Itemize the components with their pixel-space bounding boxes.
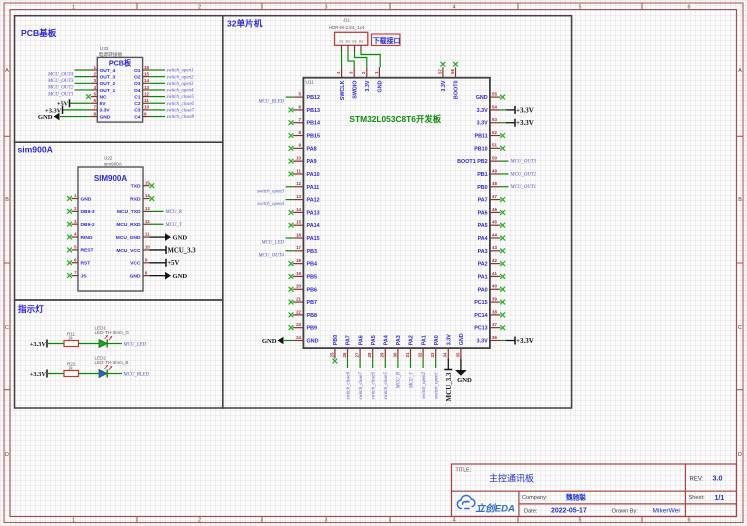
wire J11 P2 to SWDIO: [348, 51, 354, 68]
U22 pin 2 DB9-3 no-connect: [67, 206, 95, 215]
svg-text:13: 13: [144, 85, 150, 90]
U11 pin 46 PA6 no-connect: [478, 207, 505, 217]
svg-text:GND: GND: [262, 338, 277, 345]
svg-text:C: C: [5, 325, 9, 331]
svg-text:PB7: PB7: [307, 300, 318, 306]
svg-text:C3: C3: [134, 108, 141, 114]
svg-text:52: 52: [492, 130, 497, 135]
svg-text:switch_open3: switch_open3: [167, 82, 194, 87]
svg-text:switch_close8: switch_close8: [346, 371, 351, 399]
svg-text:11: 11: [296, 168, 301, 173]
U22 pin 13 MCU_TXD: [117, 206, 182, 215]
U11 pin 12 PA11 net switch_open3: [257, 181, 319, 194]
U11 pin 44 PA4 no-connect: [478, 232, 505, 242]
svg-text:GND: GND: [378, 80, 384, 92]
svg-text:U11: U11: [306, 80, 315, 86]
U11 pin 56 BOOT0 no-connect (top): [450, 62, 460, 99]
svg-text:RXD: RXD: [130, 196, 141, 202]
J11 pin stubs: [342, 45, 362, 50]
svg-text:9: 9: [299, 143, 302, 148]
svg-text:switch_close7: switch_close7: [359, 371, 364, 399]
svg-text:PC13: PC13: [474, 326, 488, 332]
svg-text:10: 10: [145, 245, 150, 250]
svg-text:5V: 5V: [100, 101, 107, 107]
svg-text:+3.3V: +3.3V: [516, 106, 534, 114]
LED LED2 LED-TH-3mm_B: [95, 355, 129, 377]
svg-text:O4: O4: [134, 88, 141, 94]
U11 pin 26 PA7 net switch_close8 (bottom): [342, 335, 352, 399]
U11 pin 8 PB15 no-connect: [289, 130, 320, 140]
section box PCB基板: [15, 16, 223, 143]
svg-text:22: 22: [296, 309, 301, 314]
svg-text:MCU_OUT4: MCU_OUT4: [257, 253, 284, 258]
svg-text:RING: RING: [81, 235, 93, 241]
svg-text:32单片机: 32单片机: [227, 18, 263, 29]
svg-text:3.3V: 3.3V: [477, 121, 488, 127]
svg-text:2: 2: [361, 71, 366, 74]
U11 pin 19 PB5 no-connect: [289, 271, 317, 281]
svg-text:17: 17: [296, 245, 301, 250]
svg-text:40: 40: [492, 284, 497, 289]
U11 pin 43 PA3 no-connect: [478, 245, 505, 255]
svg-text:15: 15: [144, 71, 150, 76]
svg-text:GND: GND: [81, 196, 92, 202]
svg-text:4: 4: [453, 5, 456, 11]
svg-text:45: 45: [492, 220, 497, 225]
frame row letters: [5, 68, 742, 458]
svg-text:PB1: PB1: [477, 172, 488, 178]
svg-text:13: 13: [296, 194, 301, 199]
U33 pin 10 C3 net switch_close7: [134, 105, 194, 114]
svg-text:56: 56: [450, 69, 455, 74]
svg-text:+3.3V: +3.3V: [30, 371, 47, 378]
svg-text:3.3V: 3.3V: [100, 108, 111, 114]
svg-text:8: 8: [93, 111, 96, 116]
svg-text:1/1: 1/1: [715, 495, 725, 502]
svg-text:PA5: PA5: [478, 223, 488, 229]
svg-text:O3: O3: [134, 81, 141, 87]
svg-text:PB10: PB10: [474, 146, 488, 152]
U33 pin 15 O2 net switch_open2: [134, 71, 194, 80]
svg-text:20: 20: [296, 284, 301, 289]
svg-text:3.3V: 3.3V: [477, 338, 488, 344]
svg-text:sim900A: sim900A: [18, 145, 53, 155]
svg-text:PA13: PA13: [307, 210, 320, 216]
svg-text:MCU_R: MCU_R: [165, 210, 182, 215]
U33 pin 6 5V: [57, 98, 106, 108]
svg-text:PA7: PA7: [478, 198, 488, 204]
svg-text:B: B: [738, 197, 742, 203]
svg-text:MCU_RXD: MCU_RXD: [116, 222, 141, 228]
svg-text:VCC: VCC: [130, 261, 141, 267]
svg-text:26: 26: [342, 352, 347, 357]
svg-text:PA0: PA0: [434, 335, 440, 345]
svg-text:51: 51: [492, 143, 497, 148]
U22 pin 14 RXD: [130, 193, 154, 202]
svg-text:PB8: PB8: [307, 313, 318, 319]
svg-text:D: D: [738, 452, 742, 458]
section box 32单片机: [223, 16, 572, 408]
power flag +3.3V row 2: [30, 370, 64, 378]
svg-text:2: 2: [198, 5, 201, 11]
svg-text:GND: GND: [38, 114, 53, 121]
svg-text:PB14: PB14: [307, 121, 321, 127]
svg-text:MCU_OUT2: MCU_OUT2: [510, 172, 537, 177]
svg-text:LED-TH-3mm_B: LED-TH-3mm_B: [95, 360, 129, 365]
svg-text:39: 39: [492, 296, 497, 301]
svg-text:3: 3: [325, 518, 328, 524]
svg-text:MCU_T: MCU_T: [165, 223, 183, 228]
svg-text:5: 5: [93, 91, 96, 96]
svg-text:PB15: PB15: [307, 134, 321, 140]
svg-text:GND: GND: [130, 273, 141, 279]
svg-text:PA9: PA9: [307, 159, 317, 165]
wire LED to net MCU_LED: [107, 343, 122, 345]
svg-text:立创EDA: 立创EDA: [476, 503, 516, 515]
svg-text:switch_open1: switch_open1: [435, 372, 440, 399]
svg-text:Drawn By:: Drawn By:: [612, 509, 638, 515]
svg-text:29: 29: [380, 352, 385, 357]
svg-text:1: 1: [74, 193, 77, 198]
U22 pin 11 MCU_GND: [116, 232, 188, 242]
U22 pin 9 VCC: [130, 257, 179, 267]
svg-text:35: 35: [455, 352, 460, 357]
svg-text:PA0: PA0: [478, 287, 488, 293]
svg-text:7: 7: [93, 105, 96, 110]
U33 pin 12 C1 net switch_close5: [134, 91, 194, 100]
svg-text:PC15: PC15: [474, 300, 488, 306]
svg-text:PA2: PA2: [478, 262, 488, 268]
svg-text:switch_open4: switch_open4: [257, 202, 284, 207]
svg-text:14: 14: [145, 193, 150, 198]
svg-text:PA5: PA5: [371, 335, 377, 345]
U11 pin 7 PB14 no-connect: [289, 117, 320, 127]
U33 pin 1 OUT_4: [47, 65, 116, 78]
svg-text:9: 9: [145, 257, 148, 262]
svg-text:2: 2: [93, 71, 96, 76]
svg-text:30: 30: [392, 352, 397, 357]
U11 pin 3 SWDIO (top, to J11): [349, 67, 359, 99]
wire LED to net MCU_RLED: [107, 373, 122, 375]
svg-text:PA1: PA1: [421, 335, 427, 345]
svg-text:PA2: PA2: [409, 335, 415, 345]
U33 pin 9 C4 net switch_close8: [134, 111, 194, 120]
U22 pin 3 DB9-2 no-connect: [67, 219, 95, 228]
U11 pin 4 SWCLK (top, to J11): [336, 67, 346, 100]
svg-text:12: 12: [145, 219, 150, 224]
svg-text:PA6: PA6: [358, 335, 364, 345]
U33 pin 3 OUT_2: [47, 78, 116, 91]
svg-text:+3.3V: +3.3V: [516, 119, 534, 127]
U22 pin 10 MCU_VCC: [116, 245, 196, 255]
svg-text:1: 1: [72, 5, 75, 11]
resistor R11 1k: [64, 331, 79, 346]
svg-text:36: 36: [492, 335, 497, 340]
svg-text:38: 38: [492, 309, 497, 314]
U33 pin 13 O4 net switch_open4: [134, 85, 194, 94]
svg-text:OUT_1: OUT_1: [100, 88, 116, 94]
svg-text:33: 33: [430, 352, 435, 357]
U22 pin 8 GND: [130, 270, 188, 280]
svg-text:MCU_R: MCU_R: [397, 372, 402, 389]
svg-text:5: 5: [579, 5, 582, 11]
svg-text:B: B: [5, 197, 9, 203]
svg-text:MCU_OUT1: MCU_OUT1: [47, 92, 74, 97]
svg-text:3.3V: 3.3V: [447, 334, 453, 345]
svg-text:PCB板: PCB板: [109, 59, 132, 68]
svg-text:31: 31: [405, 352, 410, 357]
svg-text:2: 2: [74, 206, 77, 211]
U33 pin 5 NC: [86, 91, 107, 100]
svg-text:PA12: PA12: [307, 198, 320, 204]
svg-text:28: 28: [367, 352, 372, 357]
U11 pin 32 PA1 net switch_open2 (bottom): [418, 335, 428, 399]
svg-text:REV:: REV:: [690, 477, 704, 483]
U11 pin 14 PA13 no-connect: [289, 207, 320, 217]
svg-text:3.3V: 3.3V: [477, 108, 488, 114]
U11 pin 1 GND (top, to J11): [374, 67, 384, 92]
svg-text:12: 12: [144, 91, 150, 96]
svg-text:D: D: [5, 452, 9, 458]
svg-text:TITLE:: TITLE:: [456, 468, 472, 474]
svg-text:6: 6: [299, 104, 302, 109]
svg-text:3.0: 3.0: [713, 474, 723, 483]
svg-text:switch_open2: switch_open2: [422, 371, 427, 398]
svg-text:Date:: Date:: [524, 509, 538, 515]
svg-text:3: 3: [93, 78, 96, 83]
U11 pin 15 PA14 no-connect: [289, 220, 320, 230]
svg-text:PB11: PB11: [475, 134, 488, 140]
U11 pin 28 PA5 net switch_close6 (bottom): [367, 335, 377, 399]
svg-text:16: 16: [296, 232, 301, 237]
svg-text:switch_open4: switch_open4: [167, 89, 194, 94]
svg-text:PB9: PB9: [307, 326, 318, 332]
svg-text:C4: C4: [134, 114, 141, 120]
U11 pin 38 PC14 no-connect: [474, 309, 505, 319]
U11 pin 48 PB0 net MCU_OUT1: [477, 181, 536, 191]
svg-text:24: 24: [296, 335, 301, 340]
U22 pin 7 JS no-connect: [67, 270, 87, 279]
svg-text:switch_open2: switch_open2: [167, 75, 194, 80]
svg-text:P3: P3: [353, 40, 357, 44]
svg-text:+3.3V: +3.3V: [516, 337, 534, 345]
svg-text:12: 12: [296, 181, 301, 186]
svg-text:23: 23: [296, 322, 301, 327]
U22 pin 4 RING no-connect: [67, 232, 93, 241]
U11 pin 36 3.3V power flag +3.3V: [477, 335, 534, 345]
svg-text:GND: GND: [173, 235, 188, 242]
resistor R22 1k: [64, 361, 79, 376]
svg-text:42: 42: [492, 258, 497, 263]
svg-text:1: 1: [374, 71, 379, 74]
svg-text:MCU_VCC: MCU_VCC: [116, 248, 141, 254]
svg-text:SIM900A: SIM900A: [94, 174, 128, 183]
svg-text:OUT_4: OUT_4: [100, 68, 116, 74]
svg-text:MCU_GND: MCU_GND: [116, 235, 141, 241]
svg-text:MCU_OUT1: MCU_OUT1: [510, 185, 537, 190]
svg-text:PA6: PA6: [478, 210, 488, 216]
U22 pin 12 MCU_RXD: [116, 219, 183, 228]
svg-text:PA14: PA14: [307, 223, 320, 229]
svg-text:1k: 1k: [68, 365, 73, 370]
svg-text:REST: REST: [81, 248, 94, 254]
U11 pin 55 GND no-connect: [476, 92, 505, 102]
svg-text:PA7: PA7: [346, 335, 352, 345]
svg-text:BOOT0: BOOT0: [454, 81, 460, 100]
U33 pin 11 C2 net switch_close6: [134, 98, 194, 107]
svg-text:MikerWei: MikerWei: [653, 508, 681, 515]
svg-text:switch_close7: switch_close7: [167, 109, 195, 114]
svg-text:OUT_2: OUT_2: [100, 81, 116, 87]
svg-text:4: 4: [336, 71, 341, 74]
svg-text:PA15: PA15: [307, 236, 320, 242]
svg-text:GND: GND: [100, 114, 111, 120]
svg-text:10: 10: [296, 156, 301, 161]
svg-text:49: 49: [492, 168, 497, 173]
svg-text:2022-05-17: 2022-05-17: [551, 508, 587, 515]
svg-text:1k: 1k: [68, 335, 73, 340]
power flag +3.3V row 1: [30, 340, 64, 348]
svg-text:MCU_RLED: MCU_RLED: [123, 372, 150, 377]
U11 pin 35 GND ground flag (bottom): [455, 333, 472, 384]
U33 pin 16 O1 net switch_open1: [134, 65, 193, 74]
svg-text:主控通讯板: 主控通讯板: [489, 473, 534, 484]
U11 pin 50 BOOT1 PB2 net MCU_OUT3: [457, 156, 536, 166]
U11 pin 30 PA3 net MCU_R (bottom): [392, 335, 402, 389]
U11 pin 45 PA5 no-connect: [478, 220, 505, 230]
svg-text:4: 4: [453, 518, 456, 524]
U11 pin 27 PA6 net switch_close7 (bottom): [355, 335, 365, 399]
svg-text:switch_close6: switch_close6: [167, 102, 195, 107]
svg-text:OUT_3: OUT_3: [100, 74, 116, 80]
svg-text:3.3V: 3.3V: [365, 80, 371, 91]
svg-text:1: 1: [93, 65, 96, 70]
svg-text:44: 44: [492, 232, 497, 237]
section box sim900A: [15, 142, 223, 300]
svg-text:MCU_TXD: MCU_TXD: [117, 209, 141, 215]
svg-text:3.3V: 3.3V: [441, 80, 447, 91]
svg-text:11: 11: [144, 98, 149, 103]
svg-text:MCU_RLED: MCU_RLED: [257, 100, 284, 105]
svg-text:switch_close5: switch_close5: [167, 95, 195, 100]
U11 pin 42 PA2 no-connect: [478, 258, 505, 268]
wire J11 P3 to 3.3V pin 2: [355, 51, 367, 68]
svg-text:MCU_LED: MCU_LED: [123, 342, 147, 347]
svg-text:6: 6: [688, 5, 691, 11]
svg-text:NC: NC: [100, 94, 108, 100]
svg-text:DB9-2: DB9-2: [81, 222, 95, 228]
svg-text:PB4: PB4: [307, 262, 318, 268]
U22 pin 1 GND no-connect: [67, 193, 92, 202]
svg-text:TXD: TXD: [131, 184, 141, 190]
svg-text:PB12: PB12: [307, 95, 321, 101]
U11 pin 33 PA0 net switch_open1 (bottom): [430, 335, 440, 399]
frame column ticks: [137, 3, 642, 523]
svg-text:MCU_OUT2: MCU_OUT2: [47, 86, 74, 91]
svg-text:GND: GND: [457, 377, 472, 384]
svg-text:47: 47: [492, 194, 497, 199]
svg-text:PB0: PB0: [333, 335, 339, 346]
svg-text:32: 32: [418, 352, 423, 357]
U11 pin 18 PB4 no-connect: [289, 258, 317, 268]
svg-text:4: 4: [93, 85, 96, 90]
svg-text:RST: RST: [81, 261, 91, 267]
U11 pin 11 PA10 no-connect: [289, 168, 320, 178]
svg-text:46: 46: [492, 207, 497, 212]
svg-text:U33: U33: [100, 46, 109, 51]
svg-text:P2: P2: [346, 40, 350, 44]
svg-text:sim900A: sim900A: [104, 161, 123, 166]
svg-text:8: 8: [145, 270, 148, 275]
svg-text:50: 50: [492, 156, 497, 161]
svg-text:27: 27: [355, 352, 360, 357]
U11 pin 53 3.3V power flag +3.3V: [477, 117, 534, 127]
svg-text:switch_close8: switch_close8: [167, 115, 195, 120]
svg-text:16: 16: [144, 65, 150, 70]
svg-text:C1: C1: [134, 94, 141, 100]
svg-text:MCU_T: MCU_T: [409, 371, 414, 389]
U11 pin 57 3.3V no-connect (top): [437, 62, 447, 92]
U11 pin 25 PB0 no-connect (bottom): [329, 335, 339, 364]
U11 pin 22 PB8 no-connect: [289, 309, 317, 319]
wire J11 P1 to SWCLK: [341, 51, 343, 68]
svg-text:5: 5: [299, 92, 302, 97]
svg-text:2: 2: [198, 518, 201, 524]
svg-text:PA3: PA3: [396, 335, 402, 345]
svg-text:MCU_LED: MCU_LED: [260, 241, 284, 246]
svg-text:PA8: PA8: [307, 146, 317, 152]
svg-text:4: 4: [74, 232, 77, 237]
svg-text:15: 15: [145, 180, 150, 185]
U33 pin 2 OUT_3: [47, 71, 116, 84]
svg-text:+3.3V: +3.3V: [30, 341, 47, 348]
U33 pin 7 3.3V: [45, 105, 110, 115]
svg-text:PA11: PA11: [307, 185, 320, 191]
U11 pin 10 PA9 no-connect: [289, 156, 317, 166]
svg-text:11: 11: [145, 232, 150, 237]
svg-text:O1: O1: [134, 68, 141, 74]
svg-text:48: 48: [492, 181, 497, 186]
logo 立创EDA: [457, 496, 515, 515]
U11 pin 13 PA12 net switch_open4: [257, 194, 320, 207]
svg-text:SWDIO: SWDIO: [352, 81, 358, 99]
svg-text:C2: C2: [134, 101, 141, 107]
svg-text:1: 1: [72, 518, 75, 524]
svg-text:PA4: PA4: [384, 335, 390, 345]
U11 pin 40 PA0 no-connect: [478, 284, 505, 294]
svg-text:PA4: PA4: [478, 236, 488, 242]
svg-text:3: 3: [349, 71, 354, 74]
U11 pin 49 PB1 net MCU_OUT2: [477, 168, 536, 178]
svg-text:25: 25: [329, 352, 334, 357]
svg-text:21: 21: [296, 296, 301, 301]
svg-text:STM32L053C8T6开发板: STM32L053C8T6开发板: [349, 114, 441, 124]
svg-text:34: 34: [443, 352, 448, 357]
U11 pin 31 PA2 net MCU_T (bottom): [405, 335, 415, 389]
svg-text:switch_close6: switch_close6: [372, 371, 377, 399]
svg-text:3: 3: [325, 5, 328, 11]
svg-text:8: 8: [299, 130, 302, 135]
svg-text:switch_open3: switch_open3: [257, 189, 284, 194]
section box 指示灯: [15, 300, 223, 408]
U11 pin 17 PB3 net MCU_OUT4: [257, 245, 317, 258]
svg-text:BOOT1 PB2: BOOT1 PB2: [457, 159, 488, 165]
svg-text:43: 43: [492, 245, 497, 250]
svg-text:57: 57: [437, 69, 442, 74]
U11 pin 9 PA8 no-connect: [289, 143, 317, 153]
svg-text:9: 9: [144, 111, 147, 116]
wire J11 P4 to GND pin 1: [361, 51, 380, 68]
